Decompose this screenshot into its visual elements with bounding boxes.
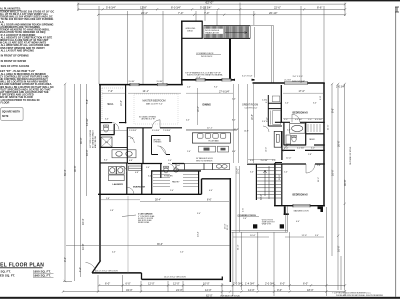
svg-text:8'-0": 8'-0" bbox=[232, 120, 236, 122]
garage porch stub bbox=[221, 277, 223, 281]
deck stairs direction arrow bbox=[225, 31, 247, 33]
svg-text:NOTE: NOTE bbox=[2, 116, 9, 118]
svg-text:4'-0": 4'-0" bbox=[186, 120, 190, 122]
svg-text:4'-6": 4'-6" bbox=[209, 190, 213, 192]
entry vestibule walls bbox=[152, 136, 171, 155]
patio thin edge line bbox=[253, 27, 255, 78]
svg-text:7'-0": 7'-0" bbox=[204, 11, 209, 15]
garage south wall east segment bbox=[142, 278, 223, 280]
svg-text:WALLS TO BE 2X6 DO NOT INCLUDE: WALLS TO BE 2X6 DO NOT INCLUDE ANY FURRI… bbox=[0, 18, 53, 21]
svg-text:OUTSIDE OF STUD: OUTSIDE OF STUD bbox=[350, 146, 352, 165]
hall wall y163 bbox=[128, 163, 184, 165]
svg-text:MAX CLG HT 9'-0": MAX CLG HT 9'-0" bbox=[146, 103, 163, 106]
porch slab edge bbox=[232, 207, 288, 233]
porch post note bbox=[262, 219, 275, 225]
svg-text:PANTRY: PANTRY bbox=[172, 180, 180, 183]
svg-text:6'-8": 6'-8" bbox=[232, 151, 236, 153]
great room label bbox=[242, 103, 258, 109]
svg-text:4'-6 3/4": 4'-6 3/4" bbox=[295, 119, 303, 121]
svg-text:6'-0": 6'-0" bbox=[126, 282, 131, 286]
right vertical dim lines bbox=[331, 83, 346, 290]
kitchen south wall bbox=[202, 178, 231, 180]
island lower counter bbox=[199, 146, 229, 152]
exterior top wall master section bbox=[99, 84, 183, 86]
svg-text:VERIFY ALL LAYOUT AND SPACING: VERIFY ALL LAYOUT AND SPACING bbox=[0, 49, 34, 52]
title block bracket top right bbox=[395, 7, 399, 12]
dining vert dim line bbox=[197, 88, 199, 125]
window master 1 bbox=[130, 83, 140, 86]
svg-text:DECK: DECK bbox=[187, 30, 193, 32]
svg-text:3'-0 3/4": 3'-0 3/4" bbox=[157, 81, 164, 83]
svg-text:62'-0": 62'-0" bbox=[206, 1, 214, 5]
svg-text:31'-0": 31'-0" bbox=[237, 244, 239, 250]
door arc mudroom-garage bbox=[127, 187, 134, 194]
garage angled corner wall bbox=[92, 261, 101, 273]
mbath east wall bbox=[126, 127, 128, 163]
bedroom2 north wall bbox=[282, 163, 325, 165]
left wall note with leader bbox=[90, 129, 97, 148]
bearing height note bbox=[185, 71, 223, 76]
svg-text:7'-8 3/4": 7'-8 3/4" bbox=[163, 130, 171, 132]
svg-text:VERIFY IN FRONT OF OPENING: VERIFY IN FRONT OF OPENING bbox=[0, 55, 29, 58]
wic east wall bbox=[125, 85, 127, 123]
bath2 tub bbox=[290, 124, 306, 134]
svg-text:3'-0": 3'-0" bbox=[63, 257, 67, 262]
svg-text:GARDEN DOOR: GARDEN DOOR bbox=[294, 209, 310, 212]
svg-text:30'-6": 30'-6" bbox=[343, 179, 347, 186]
svg-text:2'-0": 2'-0" bbox=[262, 99, 266, 101]
garage north wall bbox=[98, 193, 202, 195]
svg-text:WOOD POSTS: WOOD POSTS bbox=[262, 219, 273, 221]
bedroom3 window bbox=[284, 82, 308, 85]
svg-text:W.I.C.: W.I.C. bbox=[108, 104, 115, 106]
svg-text:VERIFY SIZE OF ATTIC ACCESS: VERIFY SIZE OF ATTIC ACCESS bbox=[0, 65, 30, 68]
svg-text:17'-0": 17'-0" bbox=[299, 90, 305, 93]
dims row hall right bbox=[284, 119, 323, 121]
svg-text:11'-2": 11'-2" bbox=[318, 177, 320, 182]
bedroom3 rotated dims bbox=[266, 96, 322, 103]
svg-text:7'-0": 7'-0" bbox=[108, 90, 113, 93]
svg-text:2'-6": 2'-6" bbox=[285, 147, 289, 149]
mudroom east wall bbox=[141, 164, 143, 195]
garden door opening bbox=[293, 204, 311, 207]
dims row master bath bbox=[129, 130, 171, 132]
svg-text:5'-4": 5'-4" bbox=[232, 98, 236, 100]
svg-text:OUTSIDE OF STUD: OUTSIDE OF STUD bbox=[220, 295, 240, 297]
mbath wall south bbox=[100, 162, 128, 164]
garage dim line2 bbox=[66, 245, 230, 247]
svg-text:9'-0": 9'-0" bbox=[277, 288, 282, 292]
window master 2 bbox=[157, 83, 168, 86]
porch corner post bbox=[318, 207, 324, 213]
svg-text:5'-0": 5'-0" bbox=[285, 102, 289, 104]
svg-text:22'-0": 22'-0" bbox=[274, 6, 281, 10]
svg-text:3'-0 3/4": 3'-0 3/4" bbox=[129, 81, 136, 83]
svg-text:8'-6": 8'-6" bbox=[207, 200, 212, 202]
row2 ticks bbox=[77, 8, 346, 10]
svg-text:4'-8": 4'-8" bbox=[135, 172, 139, 174]
deck door jambs bbox=[235, 79, 253, 81]
covered deck label bbox=[196, 53, 221, 58]
stairwell west wall bbox=[255, 164, 257, 200]
svg-text:3'-0": 3'-0" bbox=[250, 172, 254, 174]
svg-text:2'-8": 2'-8" bbox=[308, 154, 312, 156]
svg-text:30'-0": 30'-0" bbox=[79, 137, 83, 144]
deck stairs top edge bbox=[204, 25, 251, 27]
svg-text:16'-0": 16'-0" bbox=[337, 245, 341, 252]
great room rotated dims bbox=[238, 114, 269, 200]
svg-text:26'-6": 26'-6" bbox=[337, 140, 341, 147]
svg-text:5'-8": 5'-8" bbox=[110, 210, 114, 212]
svg-text:27'-8 3/4": 27'-8 3/4" bbox=[219, 91, 230, 94]
svg-text:5'-0": 5'-0" bbox=[180, 251, 184, 253]
svg-text:DINING: DINING bbox=[203, 103, 212, 106]
svg-text:TREADS AT STR: TREADS AT STR bbox=[205, 31, 220, 34]
page bottom border bbox=[0, 297, 400, 299]
svg-text:16'-4": 16'-4" bbox=[81, 218, 85, 225]
svg-text:2'-6": 2'-6" bbox=[243, 218, 247, 220]
svg-text:WINDOW SEAT: WINDOW SEAT bbox=[292, 80, 306, 83]
general notes column bbox=[0, 8, 54, 105]
svg-text:POWDER: POWDER bbox=[164, 175, 173, 177]
svg-text:4'-0": 4'-0" bbox=[250, 160, 254, 162]
svg-text:22'-1": 22'-1" bbox=[207, 128, 213, 130]
porch slab corner stub bbox=[284, 207, 289, 215]
page top border bbox=[0, 0, 400, 1]
svg-text:5'-0": 5'-0" bbox=[146, 167, 150, 169]
patio edge double vertical bbox=[272, 26, 274, 83]
door arc bath2 bbox=[284, 145, 291, 152]
laundry machines bbox=[109, 167, 125, 181]
pantry shelves bbox=[153, 175, 198, 187]
bedroom2 west wall lower bbox=[274, 163, 276, 206]
mbath vanity bbox=[112, 150, 136, 158]
garage leader arrow bbox=[122, 215, 136, 217]
grilling deck east wall bbox=[201, 21, 203, 39]
laundry west wall bbox=[99, 163, 101, 194]
svg-text:2'-0": 2'-0" bbox=[170, 190, 174, 192]
svg-text:16'-0": 16'-0" bbox=[198, 106, 200, 112]
svg-text:5'-4": 5'-4" bbox=[284, 172, 288, 174]
svg-text:6'-0": 6'-0" bbox=[197, 77, 202, 79]
svg-text:GREAT ROOM: GREAT ROOM bbox=[242, 103, 258, 106]
svg-text:6'-8": 6'-8" bbox=[129, 160, 133, 162]
master door arc bbox=[152, 120, 160, 128]
svg-text:MUDROOM: MUDROOM bbox=[133, 187, 145, 189]
master bedroom label bbox=[143, 100, 166, 106]
garage south wall west segment bbox=[92, 272, 142, 274]
top interior dim lines bbox=[102, 92, 323, 94]
svg-text:6'-0 3/4": 6'-0 3/4" bbox=[315, 119, 323, 121]
top dim row 3 line bbox=[98, 14, 345, 16]
svg-text:34'-0": 34'-0" bbox=[126, 288, 133, 292]
svg-text:OPENING: OPENING bbox=[154, 142, 162, 144]
svg-text:WOOD DECK: WOOD DECK bbox=[201, 56, 213, 58]
svg-text:4'-0": 4'-0" bbox=[311, 147, 315, 149]
pantry north wall bbox=[151, 170, 201, 172]
svg-text:24'-0": 24'-0" bbox=[176, 288, 183, 292]
svg-text:3'-6": 3'-6" bbox=[315, 235, 319, 237]
svg-text:4'-0": 4'-0" bbox=[296, 221, 300, 223]
svg-text:10'-8": 10'-8" bbox=[244, 130, 249, 132]
svg-text:16'-0" X 8'-0" OH DOOR: 16'-0" X 8'-0" OH DOOR bbox=[96, 270, 118, 272]
bedroom2 entry walls bbox=[282, 149, 325, 151]
svg-text:5'-6": 5'-6" bbox=[287, 130, 291, 132]
dining window bbox=[222, 78, 232, 81]
wic door arc bbox=[112, 123, 119, 130]
bottom dim rows bbox=[63, 207, 345, 296]
page right border bbox=[394, 7, 397, 297]
kitchen counter row bbox=[176, 163, 230, 169]
wic2 walls bbox=[306, 133, 324, 135]
bath2 vanity bbox=[286, 135, 291, 144]
mbath toilet room bbox=[100, 124, 115, 135]
wic shelf dashes bbox=[102, 88, 123, 120]
mbath shower bbox=[101, 137, 112, 147]
bedroom2 door arc bbox=[306, 164, 315, 173]
bedroom2 north wall bbox=[275, 162, 282, 164]
stair down arrow bbox=[264, 170, 267, 196]
garage center line bbox=[127, 196, 129, 273]
copyright note bbox=[332, 292, 384, 297]
row1 end ticks bbox=[77, 3, 346, 5]
wic2 shelves bbox=[308, 124, 320, 132]
svg-text:16'-0" X 8'-0" OH DOOR: 16'-0" X 8'-0" OH DOOR bbox=[164, 276, 186, 278]
svg-text:5'-8": 5'-8" bbox=[85, 99, 89, 104]
bedroom3 south wall bbox=[275, 121, 325, 123]
great room vert dim lines bbox=[234, 84, 254, 163]
svg-text:PHONE AND SPECIFICATIONS ALL R: PHONE AND SPECIFICATIONS ALL RIGHTS RESE… bbox=[336, 294, 384, 297]
kitchen island bbox=[192, 133, 230, 143]
cased opening note bbox=[139, 116, 157, 121]
left vertical dim lines bbox=[63, 83, 87, 282]
svg-text:2'-0 3/4": 2'-0 3/4" bbox=[336, 86, 345, 89]
garage south step bbox=[141, 273, 143, 280]
top dim row 1 line bbox=[78, 3, 345, 5]
svg-text:1'-0": 1'-0" bbox=[78, 267, 82, 272]
stair rail center bbox=[268, 166, 270, 199]
svg-text:5'-10 3/4": 5'-10 3/4" bbox=[200, 6, 211, 10]
small interior dim lines bbox=[100, 119, 324, 200]
svg-text:1'-6": 1'-6" bbox=[317, 165, 321, 167]
kitchen dim line bbox=[186, 129, 237, 131]
deck stairs right edge bbox=[249, 26, 251, 39]
bedroom3 west wall bbox=[280, 85, 282, 123]
mudroom bench bbox=[129, 166, 142, 171]
svg-text:10'-6": 10'-6" bbox=[121, 100, 123, 106]
svg-text:22'-4": 22'-4" bbox=[141, 11, 148, 15]
svg-text:REINF DETAIL: REINF DETAIL bbox=[138, 221, 149, 224]
window size labels bbox=[129, 80, 292, 83]
svg-text:SOME 6X6 POST: SOME 6X6 POST bbox=[262, 221, 275, 223]
exterior top wall right section bbox=[253, 82, 325, 84]
svg-text:34'-0": 34'-0" bbox=[261, 194, 263, 200]
svg-text:8'-6": 8'-6" bbox=[331, 108, 335, 113]
hall wall east of bath bbox=[142, 128, 144, 164]
svg-text:3'-0" X 6'-8": 3'-0" X 6'-8" bbox=[242, 76, 253, 78]
garage rotated dims bbox=[198, 223, 240, 250]
svg-text:MASTER BEDROOM: MASTER BEDROOM bbox=[143, 100, 166, 103]
svg-text:30'-6": 30'-6" bbox=[73, 165, 77, 172]
svg-text:ARCHED 8'-0" HT: ARCHED 8'-0" HT bbox=[142, 118, 156, 121]
bedroom2 dims bbox=[279, 157, 320, 182]
svg-text:12'-0": 12'-0" bbox=[286, 157, 292, 159]
island stools bbox=[198, 134, 226, 139]
dims mid right rows bbox=[250, 147, 315, 161]
svg-text:12'-0": 12'-0" bbox=[148, 282, 155, 286]
svg-text:3'-6 3/4": 3'-6 3/4" bbox=[261, 160, 269, 162]
bedroom3 door arc bbox=[292, 114, 300, 122]
svg-text:7'-0": 7'-0" bbox=[178, 11, 183, 15]
deck stairs treads bbox=[204, 26, 249, 38]
garage door swing arc bbox=[86, 263, 97, 274]
cased opening text bbox=[154, 138, 162, 143]
svg-text:8'-4": 8'-4" bbox=[104, 160, 108, 162]
svg-text:3'-0": 3'-0" bbox=[313, 102, 317, 104]
svg-text:4'-0": 4'-0" bbox=[112, 251, 116, 253]
bath2 toilet bbox=[292, 135, 297, 142]
porch dim lines bbox=[233, 236, 324, 238]
svg-text:2'-0": 2'-0" bbox=[187, 87, 191, 89]
master south wall bbox=[128, 127, 182, 129]
svg-text:VERIFY IN FRONT OF WATER: VERIFY IN FRONT OF WATER bbox=[0, 60, 26, 63]
porch post 1 bbox=[253, 224, 257, 228]
svg-text:5'-8 3/4": 5'-8 3/4" bbox=[106, 6, 116, 10]
grilling deck south wall bbox=[182, 37, 203, 39]
svg-text:3'-6": 3'-6" bbox=[262, 121, 266, 123]
dining door opening bbox=[196, 78, 206, 81]
svg-text:28'-4": 28'-4" bbox=[155, 200, 161, 202]
svg-text:1995 SQ. FT.: 1995 SQ. FT. bbox=[33, 274, 51, 278]
svg-text:5'-0": 5'-0" bbox=[266, 99, 268, 103]
linen shelves bbox=[270, 96, 280, 125]
row3 ticks bbox=[97, 14, 346, 16]
dining top wall bbox=[181, 79, 255, 81]
hall dim lines bbox=[236, 166, 240, 283]
exterior west wall bbox=[99, 84, 101, 261]
mud hall dim texts bbox=[129, 160, 172, 169]
grilling deck top wall bbox=[181, 20, 203, 22]
bottom extension verticals bbox=[97, 275, 99, 292]
svg-text:AT GARAGE WALLS: AT GARAGE WALLS bbox=[92, 130, 95, 148]
svg-text:10'-0": 10'-0" bbox=[203, 282, 210, 286]
door arc laundry bbox=[121, 166, 127, 172]
door arc hall closet bbox=[263, 126, 269, 132]
extra scattered dims bbox=[104, 87, 321, 254]
pantry west wall bbox=[151, 171, 153, 194]
bedroom2 south wall bbox=[274, 205, 325, 207]
svg-text:14'-6": 14'-6" bbox=[328, 124, 330, 130]
svg-text:18'-0": 18'-0" bbox=[307, 288, 314, 292]
svg-text:5'-0 3/4": 5'-0 3/4" bbox=[297, 147, 305, 149]
exterior east wall bbox=[323, 83, 325, 207]
svg-text:AT THE FLOOR: AT THE FLOOR bbox=[0, 101, 9, 104]
bath divider wall bbox=[100, 147, 127, 149]
svg-text:LAUNDRY: LAUNDRY bbox=[113, 183, 124, 186]
svg-text:SUB FLOOR AT THIS GREAT ROOM A: SUB FLOOR AT THIS GREAT ROOM AREA bbox=[187, 74, 223, 77]
svg-text:13'-0": 13'-0" bbox=[279, 174, 281, 180]
patio edge top line bbox=[250, 25, 273, 27]
grilling deck label bbox=[186, 28, 196, 33]
deck stairs bottom edge bbox=[204, 37, 251, 39]
svg-text:x1'-4 3/4": x1'-4 3/4" bbox=[284, 80, 291, 82]
svg-text:2'-0": 2'-0" bbox=[272, 160, 276, 162]
svg-text:AND CEILING: AND CEILING bbox=[94, 135, 97, 148]
svg-text:10'-8": 10'-8" bbox=[81, 243, 85, 250]
laundry east wall bbox=[126, 163, 128, 194]
garage step wall bbox=[201, 179, 203, 195]
svg-text:3'-0" X 5'-0": 3'-0" X 5'-0" bbox=[293, 76, 304, 78]
svg-text:2'-0 3/4": 2'-0 3/4" bbox=[233, 282, 243, 286]
extension verticals top bbox=[77, 3, 79, 11]
svg-text:2'-0 3/4": 2'-0 3/4" bbox=[265, 282, 275, 286]
svg-text:VENT TO EXTERIOR: VENT TO EXTERIOR bbox=[196, 160, 213, 162]
svg-text:2'-8 3/4": 2'-8 3/4" bbox=[129, 130, 137, 132]
powder west wall bbox=[160, 164, 162, 179]
svg-text:3'-0": 3'-0" bbox=[148, 175, 152, 177]
svg-text:2'-0": 2'-0" bbox=[308, 119, 312, 121]
svg-text:3'-6": 3'-6" bbox=[105, 119, 109, 121]
svg-text:25'-0": 25'-0" bbox=[224, 223, 226, 229]
garage label block bbox=[138, 212, 155, 224]
garage dim line bbox=[140, 201, 229, 203]
svg-text:6'-0": 6'-0" bbox=[303, 282, 308, 286]
top dim row 2 line bbox=[78, 8, 345, 10]
stairwell east wall bbox=[281, 164, 283, 206]
svg-text:3'-0 3/4": 3'-0 3/4" bbox=[152, 130, 160, 132]
svg-text:2'-6": 2'-6" bbox=[187, 151, 191, 153]
svg-text:1'-4 3/4": 1'-4 3/4" bbox=[245, 282, 255, 286]
svg-text:5'-0": 5'-0" bbox=[168, 160, 172, 162]
linen closets bbox=[268, 95, 282, 126]
svg-text:FINISHED SQ. FT.: FINISHED SQ. FT. bbox=[0, 274, 15, 278]
svg-text:26'-10": 26'-10" bbox=[269, 11, 277, 15]
svg-text:12'-4": 12'-4" bbox=[266, 147, 268, 152]
svg-text:CLG HT 10'-0": CLG HT 10'-0" bbox=[245, 107, 258, 109]
svg-text:14'-10": 14'-10" bbox=[85, 118, 89, 126]
svg-text:FLUSH BAR: FLUSH BAR bbox=[209, 140, 220, 143]
svg-text:8'-6": 8'-6" bbox=[317, 6, 322, 10]
svg-text:14'-1": 14'-1" bbox=[143, 90, 149, 93]
garage east wall bbox=[229, 178, 231, 282]
svg-text:14'-0": 14'-0" bbox=[248, 288, 255, 292]
powder sink bbox=[173, 168, 178, 172]
bath2 walls bbox=[284, 123, 325, 146]
chase east wall bbox=[281, 131, 283, 160]
stair top wall bbox=[247, 163, 282, 165]
svg-text:SQUARE WIDTH: SQUARE WIDTH bbox=[2, 111, 20, 114]
notes callout box bbox=[1, 108, 24, 121]
door arc powder bbox=[168, 164, 175, 171]
svg-text:3'-0": 3'-0" bbox=[284, 119, 288, 121]
porch dims bbox=[250, 235, 307, 237]
svg-text:12'-0": 12'-0" bbox=[205, 288, 212, 292]
svg-text:12'-8": 12'-8" bbox=[140, 6, 147, 10]
svg-text:16'-0": 16'-0" bbox=[331, 169, 335, 176]
svg-text:2'-6": 2'-6" bbox=[130, 138, 134, 140]
title: level floor plan bbox=[0, 262, 54, 277]
covered deck west wall bbox=[181, 21, 183, 84]
svg-text:3'-0": 3'-0" bbox=[320, 96, 322, 100]
svg-text:BEDROOM #3: BEDROOM #3 bbox=[293, 113, 309, 115]
covered deck east wall bbox=[229, 39, 231, 79]
door arc master bath bbox=[127, 136, 134, 143]
master tray dashed ceiling bbox=[134, 94, 178, 124]
svg-text:6'-0": 6'-0" bbox=[105, 282, 110, 286]
mbath toilet bbox=[104, 125, 109, 132]
svg-text:3'-4": 3'-4" bbox=[197, 213, 201, 215]
wic south wall bbox=[100, 122, 126, 124]
